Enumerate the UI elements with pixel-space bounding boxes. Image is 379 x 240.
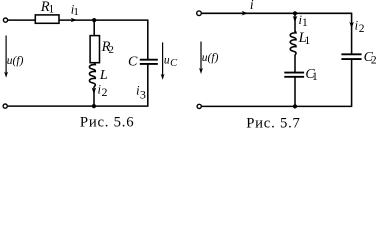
- resistor R2: [90, 36, 99, 63]
- wire: branch 1 upper (node to L1): [294, 13, 296, 32]
- svg-text:2: 2: [371, 55, 377, 67]
- arrow i on top wire: [242, 11, 249, 16]
- terminal bottom-left (circuit 5.7): [197, 104, 201, 108]
- svg-text:2: 2: [102, 85, 108, 99]
- terminal bottom-left (circuit 5.6): [3, 104, 7, 108]
- svg-text:L: L: [99, 68, 108, 83]
- svg-text:u: u: [164, 55, 170, 67]
- wire: middle branch lower (L to bottom node): [93, 87, 95, 107]
- wire: bottom wire circuit 5.7: [202, 105, 353, 107]
- arrow i2 on middle branch: [92, 88, 97, 95]
- svg-text:C: C: [170, 58, 178, 69]
- svg-text:Рис. 5.7: Рис. 5.7: [246, 116, 301, 132]
- node bottom (branch 1, circuit 5.7): [293, 104, 297, 108]
- wire: branch 1 lower (C1 to bottom node): [294, 77, 296, 106]
- arrow uC (capacitor voltage): [161, 42, 165, 80]
- wire: branch 1 middle (L1 to C1): [294, 55, 296, 73]
- arrow i1 on top wire: [71, 18, 78, 23]
- svg-text:u(f): u(f): [202, 52, 219, 64]
- inductor L: [89, 63, 95, 87]
- terminal top-left (circuit 5.7): [197, 11, 202, 16]
- terminal top-left (circuit 5.6): [3, 18, 7, 22]
- node top (branch 1, circuit 5.7): [293, 11, 297, 15]
- svg-text:u(f): u(f): [7, 55, 24, 67]
- arrow i1 on branch 1: [293, 16, 298, 23]
- node A (top junction, circuit 5.6): [92, 18, 96, 22]
- svg-text:1: 1: [305, 35, 311, 47]
- svg-text:1: 1: [73, 6, 79, 18]
- wire: bottom wire circuit 5.6: [8, 105, 149, 107]
- svg-text:1: 1: [312, 71, 318, 83]
- wire: right branch upper segment (to C2): [351, 13, 353, 54]
- svg-text:C: C: [128, 55, 138, 70]
- svg-text:1: 1: [302, 17, 308, 29]
- capacitor C1 plates: [284, 73, 304, 77]
- svg-text:1: 1: [49, 4, 55, 16]
- svg-text:i: i: [250, 0, 254, 12]
- node B (bottom junction, circuit 5.6): [92, 104, 96, 108]
- svg-text:Рис. 5.6: Рис. 5.6: [80, 115, 134, 131]
- arrow i2 on right branch: [349, 22, 354, 29]
- wire: middle branch upper (node A to R2): [93, 20, 95, 35]
- svg-text:2: 2: [108, 44, 114, 56]
- capacitor C2 plates: [341, 54, 361, 59]
- arrow u(f) left circuit 5.6: [4, 36, 8, 78]
- wire: right branch lower segment: [147, 64, 149, 106]
- inductor L1: [290, 31, 296, 55]
- resistor R1: [35, 15, 59, 23]
- wire: top-left terminal to R1: [8, 19, 36, 21]
- wire: right branch lower segment (C2 to bottom): [351, 59, 353, 106]
- wire: R1 to top-right corner through node A: [59, 19, 148, 21]
- arrow u(f) left circuit 5.7: [199, 42, 203, 75]
- wire: top wire circuit 5.7: [201, 12, 352, 14]
- svg-text:2: 2: [359, 23, 365, 35]
- wire: right branch upper segment: [147, 20, 149, 59]
- svg-text:3: 3: [140, 88, 146, 102]
- capacitor C plates: [140, 60, 158, 64]
